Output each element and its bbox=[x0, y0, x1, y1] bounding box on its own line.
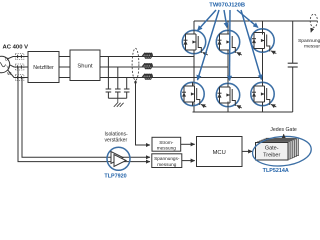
wire DC- rail bbox=[193, 111, 293, 113]
transistor Q2 bbox=[216, 30, 242, 55]
fuse F1 (U phase connector) bbox=[15, 54, 24, 60]
box Netzfilter bbox=[28, 52, 59, 83]
svg-text:Jedes Gate: Jedes Gate bbox=[270, 127, 297, 133]
svg-text:Spannungs-: Spannungs- bbox=[154, 156, 180, 161]
wire V from source bbox=[10, 65, 28, 67]
svg-text:messung: messung bbox=[157, 162, 176, 167]
svg-text:verstärker: verstärker bbox=[105, 138, 128, 144]
voltage sense zone (dashed ellipse) bbox=[310, 14, 317, 27]
ground bbox=[114, 98, 124, 107]
wire capacitor bus bbox=[108, 97, 126, 99]
box Shunt bbox=[70, 50, 100, 81]
transistor Q4 bbox=[181, 82, 207, 107]
wire voltage tap B bbox=[22, 78, 150, 158]
wire Spannungsmessung to MCU bbox=[182, 160, 195, 162]
wire current sense to Strommessung bbox=[136, 81, 151, 146]
wire V Netzfilter-Shunt bbox=[59, 66, 70, 68]
capacitor C2 (V filter) bbox=[115, 67, 121, 98]
svg-text:V: V bbox=[7, 65, 10, 70]
svg-text:Strom-: Strom- bbox=[159, 140, 174, 145]
svg-text:messung: messung bbox=[157, 145, 176, 150]
wire Strommessung to MCU bbox=[181, 143, 195, 145]
svg-text:MCU: MCU bbox=[213, 150, 226, 156]
transistor Q3 bbox=[251, 29, 276, 54]
svg-text:Spannungs-: Spannungs- bbox=[298, 38, 320, 44]
svg-text:TW070J120B: TW070J120B bbox=[209, 3, 245, 9]
svg-text:Gate-: Gate- bbox=[265, 146, 279, 152]
svg-text:messung: messung bbox=[304, 45, 320, 50]
arrow to Q6 bbox=[241, 10, 262, 80]
wire voltage tap A bbox=[18, 67, 150, 162]
capacitor C4 (DC link) bbox=[288, 21, 298, 112]
wire U from source bbox=[7, 57, 28, 60]
wire DC+ rail bbox=[194, 20, 317, 22]
op-amp U2 (isolation amplifier TLP7920) bbox=[107, 147, 130, 170]
box MCU bbox=[197, 137, 243, 167]
capacitor C1 (U filter) bbox=[106, 57, 112, 99]
svg-text:TLP5214A: TLP5214A bbox=[263, 168, 289, 174]
wire column 1 bbox=[193, 21, 195, 112]
svg-text:Netzfilter: Netzfilter bbox=[33, 65, 54, 71]
box Strommessung bbox=[152, 137, 181, 151]
wire V Shunt-bridge bbox=[100, 66, 228, 68]
arrow current sense down bbox=[134, 82, 137, 86]
gate driver stack TLP5214A bbox=[251, 134, 312, 168]
wire W Netzfilter-Shunt bbox=[59, 77, 70, 79]
wire W from source bbox=[8, 70, 28, 78]
arrow to Q3 bbox=[237, 10, 258, 28]
AC source V1 bbox=[0, 56, 10, 72]
arrow to Q1 bbox=[198, 10, 217, 31]
wire U Shunt-bridge bbox=[100, 56, 194, 58]
inductor L2 (V) bbox=[144, 64, 152, 67]
arrow to Q5 bbox=[229, 10, 232, 81]
arrow to Q4 bbox=[198, 10, 220, 80]
arrow voltage sense down bbox=[311, 28, 312, 32]
transistor Q5 bbox=[216, 83, 242, 108]
svg-text:AC 400 V: AC 400 V bbox=[3, 45, 29, 51]
wire MCU to Gate-Treiber bbox=[242, 150, 252, 152]
inductor L3 (W) bbox=[144, 74, 152, 77]
transistor Q6 bbox=[251, 82, 276, 107]
wire U Netzfilter-Shunt bbox=[59, 56, 70, 58]
arrow Jedes Gate bbox=[283, 134, 285, 137]
wire column 2 bbox=[227, 21, 229, 112]
inductor L1 (U) bbox=[144, 53, 152, 56]
current sense zone (dashed ellipse) bbox=[132, 48, 139, 80]
capacitor C3 (W filter) bbox=[124, 78, 130, 99]
arrow to Q2 bbox=[224, 10, 227, 28]
svg-text:Treiber: Treiber bbox=[263, 153, 280, 159]
transistor Q1 bbox=[182, 30, 208, 55]
wire W Shunt-bridge bbox=[100, 77, 263, 79]
fuse F3 (W phase connector) bbox=[15, 75, 24, 81]
fuse F2 (V phase connector) bbox=[15, 64, 24, 70]
svg-text:TLP7920: TLP7920 bbox=[104, 174, 126, 180]
box Spannungsmessung bbox=[152, 154, 182, 168]
svg-text:Shunt: Shunt bbox=[77, 64, 93, 70]
wire column 3 bbox=[262, 21, 264, 112]
